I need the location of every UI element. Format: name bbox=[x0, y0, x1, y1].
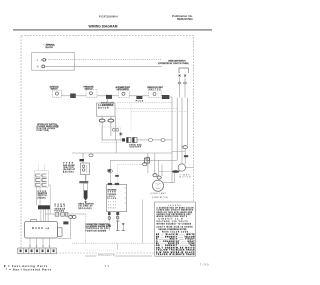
surface bank label below bbox=[38, 191, 48, 200]
svg-text:WHITE TRACE: WHITE TRACE bbox=[176, 253, 195, 256]
bus drop to dotted line bbox=[117, 243, 119, 250]
svg-text:N: N bbox=[37, 66, 39, 69]
lamp cluster verticals bbox=[147, 153, 162, 176]
twin ovals below row bbox=[69, 215, 76, 218]
thermostat box pair bbox=[127, 138, 138, 143]
header model number bbox=[99, 15, 118, 19]
svg-text:BAKING): BAKING) bbox=[63, 170, 74, 173]
oval feed wires bbox=[154, 153, 156, 174]
svg-text:WIRING DIAGRAM: WIRING DIAGRAM bbox=[89, 25, 118, 29]
terminal row bbox=[55, 213, 68, 217]
wire row y214 bbox=[45, 213, 86, 215]
wire to bus bbox=[165, 139, 172, 141]
ignitor connector dark bbox=[80, 159, 85, 161]
svg-text:WIRING SUBJECT TO CHANGE: WIRING SUBJECT TO CHANGE bbox=[157, 223, 192, 226]
EOC board bbox=[107, 183, 127, 212]
svg-text:FGF300WH: FGF300WH bbox=[99, 15, 118, 19]
asterisk mark above thermostat bbox=[119, 132, 123, 136]
switch D box bbox=[148, 91, 161, 98]
svg-text:POSITION): POSITION) bbox=[37, 130, 50, 132]
wire bbox=[112, 95, 119, 97]
dashed link D1 bbox=[117, 101, 172, 103]
bake burner box bbox=[25, 219, 63, 238]
inline oval 2 bbox=[161, 139, 165, 142]
svg-text:MOTOR: MOTOR bbox=[98, 108, 109, 110]
connector P1 bbox=[71, 94, 76, 98]
lamp top ovals bbox=[153, 174, 161, 180]
dashed link D2 bbox=[116, 108, 178, 110]
footer legend bbox=[4, 265, 52, 272]
dark mark left of ovals bbox=[63, 221, 68, 224]
svg-text:OVEN LAMP: OVEN LAMP bbox=[151, 192, 167, 195]
wire to right bus bbox=[169, 97, 172, 99]
wire bbox=[161, 95, 162, 97]
connector P2 label bbox=[101, 102, 115, 106]
wire run y140 bbox=[102, 139, 122, 141]
wire bbox=[61, 95, 70, 97]
svg-text:WIRE COLOR CODE: WIRE COLOR CODE bbox=[162, 231, 189, 233]
wire bbox=[76, 95, 87, 97]
harness wires down to bake box bbox=[41, 209, 48, 221]
header rule bbox=[13, 29, 212, 31]
switch row: label SW D bbox=[147, 87, 164, 91]
timer label bbox=[180, 174, 192, 178]
bake box leads down bbox=[30, 238, 50, 248]
bus link to timer chain bbox=[172, 151, 185, 153]
svg-text:L1: L1 bbox=[37, 59, 43, 62]
svg-text:BLOCK: BLOCK bbox=[46, 47, 54, 49]
wire bbox=[97, 95, 106, 97]
bake return riser bbox=[58, 218, 71, 238]
switch row: label SW B bbox=[84, 86, 95, 90]
diagram frame border bbox=[21, 36, 193, 253]
svg-text:7/99: 7/99 bbox=[200, 263, 209, 266]
twin contact circles bbox=[112, 128, 118, 131]
oven lamp switch S1 bbox=[179, 68, 189, 77]
terminal strip bottom left bbox=[18, 248, 57, 254]
connector P4 bbox=[162, 95, 169, 99]
selector harness connector block bbox=[38, 205, 50, 209]
svg-text:BROILING): BROILING) bbox=[79, 208, 92, 210]
svg-text:MOTOR: MOTOR bbox=[180, 177, 192, 179]
header title WIRING DIAGRAM bbox=[89, 25, 118, 29]
oval below relay bbox=[143, 163, 147, 166]
note text block bbox=[86, 224, 112, 233]
relay block on H2 bbox=[145, 158, 150, 163]
vertical right side of lock bbox=[115, 116, 117, 140]
svg-text:RELAY: RELAY bbox=[108, 207, 117, 210]
timer feed oval top bbox=[182, 146, 188, 149]
surface switch bank bbox=[35, 171, 49, 188]
lead arrowheads above strip bbox=[29, 246, 50, 248]
wire bbox=[153, 139, 162, 141]
bottom dotted wire y243 bbox=[72, 242, 154, 244]
oval left of lamp bbox=[146, 157, 150, 161]
svg-text:POSITION SHOWN: POSITION SHOWN bbox=[86, 230, 107, 232]
switch row: label SW C bbox=[116, 86, 131, 91]
oven lamp label bbox=[151, 192, 169, 199]
junction block bbox=[122, 138, 125, 141]
grid feed stubs bbox=[39, 165, 45, 171]
wire H2 y160.3 bbox=[110, 160, 177, 183]
wire H3 y164.6 dashes bbox=[117, 165, 142, 183]
terminal L1 bbox=[37, 58, 46, 62]
svg-text:13: 13 bbox=[105, 264, 110, 268]
terminal block box TB1 bbox=[32, 53, 75, 70]
wire L1 (dashed) bbox=[46, 59, 162, 61]
sensor label B bbox=[79, 203, 95, 209]
terminal block label bbox=[43, 44, 56, 50]
thermostat label bbox=[129, 143, 142, 148]
oven sensor element bbox=[79, 175, 88, 204]
svg-text:LEGEND: LEGEND bbox=[168, 205, 182, 207]
terminal N bbox=[37, 65, 45, 69]
small tick on drop2 bbox=[115, 175, 119, 177]
connector P3 bbox=[137, 96, 143, 99]
svg-text:GM222278: GM222278 bbox=[98, 253, 115, 256]
lamp right feed bbox=[164, 182, 175, 184]
switch B box bbox=[86, 90, 97, 97]
timer motor M bbox=[172, 155, 193, 183]
oven lamp bulb bbox=[152, 180, 163, 191]
oval on EOC drop bbox=[108, 170, 112, 173]
svg-text:(OPERATES AT LIGHT IN OVEN): (OPERATES AT LIGHT IN OVEN) bbox=[158, 62, 189, 65]
svg-text:P3 P4: P3 P4 bbox=[108, 205, 116, 207]
svg-text:BAKE: BAKE bbox=[32, 226, 43, 230]
wire bbox=[129, 95, 136, 97]
wire from oval2 down bbox=[110, 122, 112, 136]
wire N bbox=[45, 65, 162, 67]
oval on H1 bbox=[89, 154, 93, 157]
grid leads down bbox=[37, 187, 41, 205]
bake to bottom bus bbox=[85, 214, 87, 243]
latch enclosure dashed bbox=[102, 127, 121, 143]
vertical y140 to H1 bbox=[115, 140, 117, 153]
oven ignitor box bbox=[81, 163, 90, 175]
svg-text:* = Non-Illustrated Parts: * = Non-Illustrated Parts bbox=[6, 269, 52, 272]
drop from P2 to lock box bbox=[107, 99, 109, 103]
bottom dotted wire y250 bbox=[85, 249, 115, 251]
switch row: label SW A bbox=[50, 85, 60, 90]
part number gap line bbox=[85, 251, 152, 256]
right bus wires bbox=[171, 99, 173, 183]
svg-text:CLOCK: CLOCK bbox=[108, 198, 117, 200]
wire bbox=[142, 95, 148, 97]
EOC asterisk on drop bbox=[107, 169, 111, 173]
svg-text:P1 P2: P1 P2 bbox=[108, 202, 116, 204]
svg-text:(REAR): (REAR) bbox=[38, 196, 46, 199]
wire into timer bbox=[184, 149, 186, 164]
second symbol column bbox=[122, 223, 125, 230]
switch C box bbox=[118, 91, 129, 98]
svg-text:(LIGHT AT TOP): (LIGHT AT TOP) bbox=[152, 196, 168, 199]
ignitor label bbox=[63, 163, 76, 174]
EOC bottom leads bbox=[108, 212, 119, 231]
legend box bbox=[155, 202, 196, 256]
grid-to-connector wire bbox=[48, 185, 50, 214]
wire bbox=[137, 139, 149, 141]
dashed vertical at lock right bbox=[130, 104, 132, 130]
dashed link D3 bbox=[131, 111, 187, 113]
connector P2 bbox=[106, 95, 112, 99]
svg-text:# = Fast-moving Parts: # = Fast-moving Parts bbox=[4, 265, 48, 268]
svg-text:TERMINAL: TERMINAL bbox=[46, 44, 56, 47]
wire from oval1 down bbox=[101, 122, 103, 140]
wire y171 bbox=[159, 170, 173, 172]
lock box lead ovals bbox=[99, 116, 114, 122]
inline oval 1 bbox=[149, 139, 153, 142]
surface switch bank label right bbox=[0, 0, 1, 1]
sensor label A bbox=[55, 204, 66, 213]
switch A box bbox=[52, 90, 61, 97]
lock motor box bbox=[97, 103, 116, 116]
lamp switch pin wires bbox=[179, 78, 181, 98]
lamp return wire bbox=[141, 200, 143, 244]
header publication no bbox=[172, 14, 193, 21]
svg-text:TRACER WIR: TRACER WIR bbox=[156, 253, 175, 256]
svg-text:VOLTAGE 120 VOLTS: VOLTAGE 120 VOLTS bbox=[157, 220, 189, 223]
svg-text:SHUTOFF: SHUTOFF bbox=[130, 147, 142, 149]
interlock switch note bbox=[37, 124, 59, 132]
svg-text:5995231594: 5995231594 bbox=[177, 17, 193, 21]
wire H1 y153 bbox=[72, 153, 172, 163]
oven lamp switch label bbox=[158, 59, 189, 65]
pin connector ovals bbox=[178, 82, 181, 84]
